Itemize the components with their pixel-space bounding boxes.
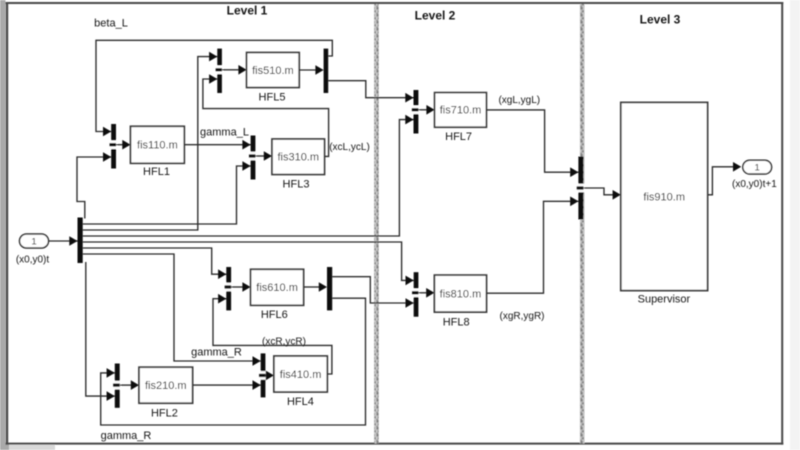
wire block HFL5 to demux D5	[299, 65, 323, 75]
svg-text:HFL8: HFL8	[443, 317, 470, 329]
wire input port to demux D1	[49, 236, 78, 246]
svg-text:HFL7: HFL7	[445, 131, 472, 143]
mux M6	[225, 267, 233, 310]
label gamma_L	[200, 126, 249, 138]
svg-text:HFL1: HFL1	[143, 166, 170, 178]
title Level 1	[227, 4, 268, 18]
svg-text:(xgL,ygL): (xgL,ygL)	[498, 95, 540, 106]
svg-text:HFL4: HFL4	[287, 396, 314, 408]
block HFL2 fis210.m	[139, 367, 193, 403]
svg-text:fis210.m: fis210.m	[145, 380, 187, 392]
demux D6	[327, 267, 332, 310]
wire D1 out8 to mux M2 in2	[86, 262, 115, 401]
wire gamma_L block HFL1 to mux M3 in1	[184, 140, 250, 150]
mux M3	[249, 136, 257, 180]
block HFL4 fis410.m	[274, 356, 327, 392]
svg-text:(xcL,ycL): (xcL,ycL)	[329, 142, 370, 153]
svg-text:gamma_R: gamma_R	[101, 430, 152, 442]
label (xgL,ygL)	[498, 95, 540, 106]
svg-text:HFL6: HFL6	[261, 309, 288, 321]
block HFL6 fis610.m	[251, 269, 304, 305]
svg-text:fis410.m: fis410.m	[280, 369, 322, 381]
label HFL4	[287, 396, 314, 408]
wire D1 out4 (fan line 3) to mux M7 in2	[83, 115, 414, 236]
mux M5	[216, 49, 223, 93]
wire mux M6 to block HFL6	[231, 282, 251, 292]
wire D1 out1 to mux M1 in2	[77, 152, 111, 218]
label gamma_R bottom	[101, 430, 152, 442]
wire block HFL2 to mux M4 in2	[193, 380, 261, 390]
wire (xcR,ycR) block HFL4 to mux M6 in2	[213, 294, 332, 374]
svg-text:gamma_L: gamma_L	[200, 126, 249, 138]
wire (xgL,ygL) block HFL7 to mux M9 in1	[486, 110, 578, 177]
svg-text:fis110.m: fis110.m	[137, 140, 178, 152]
window left gray edge strip	[0, 0, 6, 450]
svg-text:1: 1	[31, 236, 36, 247]
label Supervisor	[638, 293, 691, 305]
title Level 3	[640, 13, 681, 27]
block HFL8 fis810.m	[434, 275, 486, 312]
divider between Level 1 and Level 2	[374, 4, 379, 444]
svg-text:(x0,y0)t+1: (x0,y0)t+1	[732, 179, 777, 190]
svg-text:(xgR,ygR): (xgR,ygR)	[499, 311, 544, 322]
label HFL2	[151, 407, 178, 419]
svg-text:fis810.m: fis810.m	[440, 288, 482, 300]
mux M2	[113, 364, 121, 408]
input port 1	[20, 234, 49, 248]
svg-text:fis910.m: fis910.m	[643, 191, 685, 203]
wire D1 out3 (fan line 2) to mux M5 in1	[83, 52, 218, 230]
svg-text:Level 1: Level 1	[227, 4, 268, 18]
wire (xcL,ycL) block HFL3 to mux M5 in2	[203, 74, 329, 156]
wire mux M2 to block HFL2	[120, 380, 139, 390]
svg-text:(x0,y0)t: (x0,y0)t	[16, 255, 50, 266]
svg-text:beta_L: beta_L	[94, 18, 128, 30]
demux D5	[324, 49, 329, 93]
window bottom-left gray blob	[0, 443, 55, 450]
label HFL3	[283, 178, 310, 190]
title Level 2	[415, 9, 456, 23]
svg-text:HFL3: HFL3	[283, 178, 310, 190]
divider between Level 2 and Level 3	[580, 4, 585, 444]
mux M8	[412, 272, 419, 317]
wire mux M7 to block HFL7	[418, 105, 434, 115]
svg-text:Level 2: Level 2	[415, 9, 456, 23]
wire D1 out5 (fan line 4) to mux M8 in1	[83, 242, 414, 285]
svg-text:(xcR,ycR): (xcR,ycR)	[262, 337, 306, 348]
wire gamma_R feedback demux D6 out2 to mux M2 in1	[101, 298, 366, 425]
wire mux M1 to block HFL1	[116, 140, 131, 150]
svg-text:fis310.m: fis310.m	[277, 152, 319, 164]
wire mux M5 to block HFL5	[222, 65, 247, 75]
svg-text:gamma_R: gamma_R	[191, 347, 242, 359]
svg-text:fis710.m: fis710.m	[440, 105, 482, 117]
wire demux D6 out1 to mux M8 in2	[332, 277, 414, 308]
label HFL8	[443, 317, 470, 329]
svg-text:HFL5: HFL5	[259, 92, 286, 104]
svg-text:Supervisor: Supervisor	[638, 293, 691, 305]
label HFL5	[259, 92, 286, 104]
label gamma_R upper	[191, 347, 242, 359]
wire D1 out7 (fan line 6) to mux M4 in1	[83, 254, 261, 366]
output port 1	[743, 160, 772, 174]
wire (xgR,ygR) block HFL8 to mux M9 in2	[487, 197, 579, 294]
wire demux D5 out2 to mux M7 in1	[328, 81, 413, 103]
label (x0,y0)t+1	[732, 179, 777, 190]
svg-text:fis510.m: fis510.m	[252, 65, 294, 77]
wire mux M4 to block HFL4	[265, 371, 274, 381]
window right off-white strip	[790, 0, 800, 450]
block HFL1 fis110.m	[131, 126, 185, 163]
label (xcL,ycL)	[329, 142, 370, 153]
wire block Supervisor to output port	[708, 162, 742, 195]
label (xcR,ycR)	[262, 337, 306, 348]
mux M9	[577, 157, 585, 220]
mux M1	[110, 124, 118, 169]
block HFL7 fis710.m	[435, 93, 487, 128]
svg-text:Level 3: Level 3	[640, 13, 681, 27]
block HFL3 fis310.m	[272, 139, 325, 175]
svg-text:1: 1	[755, 163, 760, 174]
block HFL5 fis510.m	[247, 53, 300, 88]
wire mux M9 to block Supervisor	[583, 188, 620, 200]
label (xgR,ygR)	[499, 311, 544, 322]
label (x0,y0)t	[16, 255, 50, 266]
label HFL1	[143, 166, 170, 178]
block Supervisor fis910.m	[621, 102, 708, 290]
svg-text:fis610.m: fis610.m	[256, 282, 298, 294]
wire D1 out6 (fan line 5) to mux M6 in1	[83, 248, 227, 279]
label HFL7	[445, 131, 472, 143]
wire mux M8 to block HFL8	[418, 288, 434, 298]
label HFL6	[261, 309, 288, 321]
wire D1 out2 (fan line 1) to mux M3 in2	[83, 161, 251, 224]
wire beta_L feedback demux D5 out1 to mux M1 in1	[96, 40, 332, 136]
svg-text:HFL2: HFL2	[151, 407, 178, 419]
wire block HFL6 to demux D6	[304, 282, 327, 292]
mux M7	[412, 90, 420, 134]
demux D1	[78, 218, 83, 264]
mux M4	[259, 353, 266, 397]
label beta_L	[94, 18, 128, 30]
wire mux M3 to block HFL3	[255, 151, 272, 161]
